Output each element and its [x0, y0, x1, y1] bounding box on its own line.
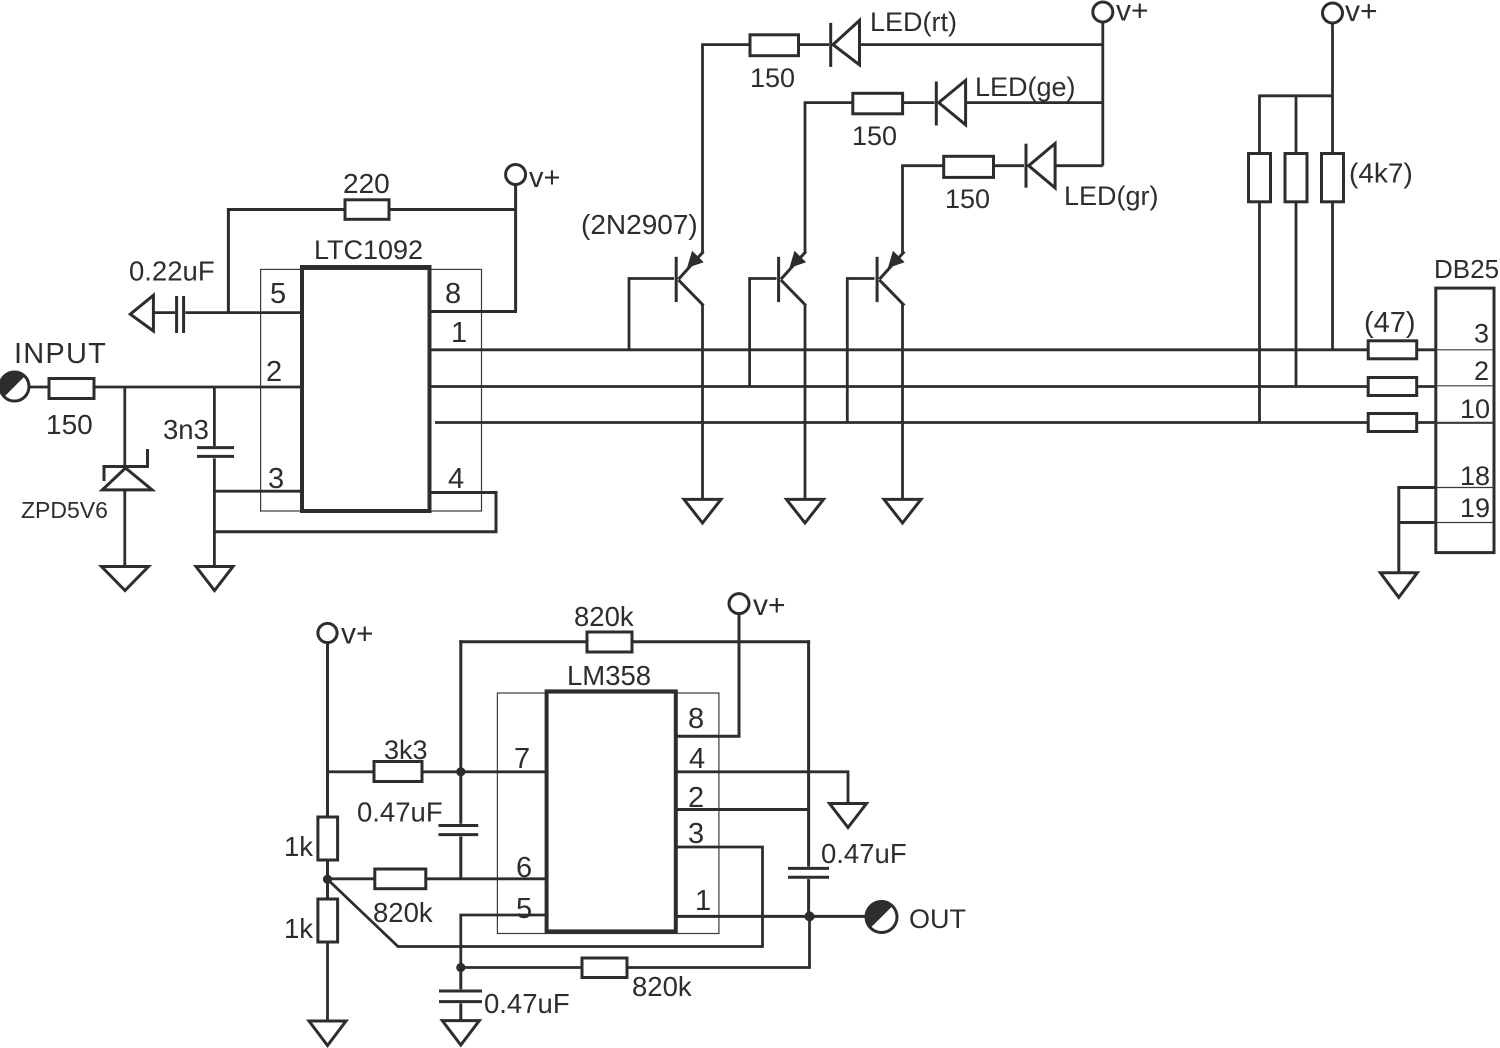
wire Q1 emitter to R150rt [701, 43, 750, 46]
svg-text:3: 3 [1474, 319, 1489, 349]
resistor 150 (gr) [944, 156, 994, 177]
IC U2 LM358 body [547, 691, 676, 931]
svg-text:7: 7 [514, 743, 530, 775]
transistor Q2 2N2907 [750, 103, 807, 500]
bus wire 3 [435, 421, 1368, 424]
wire v+ node to 3k3 [328, 770, 375, 773]
wire R47c to DB25 pin 10 [1417, 421, 1436, 424]
wire 220 left vertical [227, 208, 230, 313]
svg-text:150: 150 [46, 409, 93, 440]
input terminal [0, 372, 29, 401]
svg-text:150: 150 [852, 121, 897, 151]
svg-text:0.22uF: 0.22uF [129, 256, 215, 287]
wire DB25 18-19 jumper [1399, 486, 1436, 573]
ground (DB25) [1380, 573, 1417, 598]
wire U1 pin 8 [430, 310, 518, 313]
bus wire 1 (U1 pin 1) [430, 348, 1369, 351]
svg-text:4: 4 [448, 463, 464, 495]
svg-text:OUT: OUT [909, 904, 966, 934]
wire v+ down to U1 pin 8 [514, 185, 517, 312]
svg-text:1: 1 [695, 885, 711, 917]
svg-text:10: 10 [1460, 394, 1490, 424]
wire to R4k7 b [1295, 95, 1298, 154]
svg-text:0.47uF: 0.47uF [484, 988, 570, 1019]
LED(rt) diode [831, 20, 860, 67]
svg-text:2: 2 [266, 356, 282, 388]
svg-text:DB25: DB25 [1434, 254, 1499, 284]
wire node to 820k mid [328, 877, 375, 880]
v+ terminal (4k7 rail) [1323, 3, 1343, 23]
wire U1 pin 3 [214, 490, 302, 493]
svg-text:8: 8 [445, 278, 461, 310]
wire v+ left vertical [326, 643, 329, 817]
wire 820k mid to U2 pin 6 [426, 877, 547, 880]
svg-text:3n3: 3n3 [163, 414, 209, 445]
wire R4k7 a to bus 3 [1258, 202, 1261, 423]
capacitor 0.47uF (out) [788, 810, 829, 917]
wire 820k bottom to OUT node [627, 916, 810, 967]
capacitor 0.22uF [130, 295, 183, 333]
svg-text:0.47uF: 0.47uF [821, 838, 907, 869]
resistor 820k mid [375, 869, 426, 889]
resistor 4k7 b [1285, 154, 1307, 202]
resistor 150 (rt) [750, 35, 799, 56]
svg-text:220: 220 [343, 168, 390, 199]
svg-text:LM358: LM358 [567, 660, 651, 691]
resistor 150 (ge) [853, 93, 903, 114]
svg-text:150: 150 [945, 184, 990, 214]
ground (divider) [309, 1021, 346, 1046]
wire 220 to v+ [389, 208, 517, 211]
wire Q3 emitter to R150gr [901, 164, 944, 167]
resistor 47 a [1368, 341, 1417, 359]
wire Q2 emitter to R150ge [804, 101, 853, 104]
ground (pin5 cap) [442, 1021, 479, 1045]
svg-text:18: 18 [1460, 461, 1490, 491]
svg-text:v+: v+ [1345, 0, 1378, 28]
resistor 4k7 c [1322, 154, 1344, 202]
svg-text:3: 3 [688, 818, 704, 850]
wire v+ 4k7 vertical [1331, 23, 1334, 154]
svg-text:(47): (47) [1364, 307, 1416, 339]
svg-text:5: 5 [270, 278, 286, 310]
wire R4k7 b to bus 2 [1295, 202, 1298, 387]
LED(ge) diode [936, 80, 965, 125]
wire R150rt to LED(rt) [799, 43, 830, 46]
wire v+ LED rail vertical [1101, 22, 1104, 166]
resistor 4k7 a [1249, 154, 1271, 202]
svg-text:1k: 1k [284, 831, 313, 862]
wire input terminal to R150 [29, 386, 50, 389]
svg-text:LED(ge): LED(ge) [975, 72, 1076, 102]
ground (Q3) [884, 499, 921, 523]
wire U2 pin 5 elbow [461, 915, 547, 968]
capacitor 0.47uF (pin5) [439, 968, 482, 1022]
svg-text:820k: 820k [574, 601, 634, 632]
resistor 47 b [1368, 378, 1417, 396]
svg-text:v+: v+ [753, 589, 786, 622]
svg-text:820k: 820k [373, 897, 433, 928]
svg-text:v+: v+ [529, 162, 560, 194]
svg-text:0.47uF: 0.47uF [357, 797, 443, 828]
svg-text:150: 150 [750, 63, 795, 93]
OUT terminal [866, 902, 897, 933]
wire U2 pin 1 to OUT [676, 915, 865, 918]
wire U2 pin 4 to ground [676, 772, 848, 804]
svg-text:4: 4 [689, 743, 705, 775]
node pin7 junction [456, 767, 465, 776]
v+ terminal (LTC) [506, 165, 526, 185]
ground (3n3) [196, 567, 233, 591]
ground (Q1) [684, 499, 721, 523]
connector DB25 [1436, 288, 1494, 552]
wire LED(ge) to v+ rail [966, 101, 1103, 104]
wire LED(gr) to v+ rail [1055, 164, 1103, 167]
ground (zener) [102, 567, 149, 591]
wire to R4k7 a [1258, 95, 1261, 154]
svg-text:5: 5 [516, 893, 532, 925]
svg-text:ZPD5V6: ZPD5V6 [21, 497, 108, 523]
node OUT junction [805, 911, 815, 921]
wire 1k lower to ground [326, 942, 329, 1021]
wire 820k-top left horizontal [459, 640, 587, 643]
wire v+ right vertical [738, 614, 741, 737]
zener diode ZPD5V6 [102, 387, 152, 567]
wire pin5 node to 820k bottom [461, 966, 582, 969]
resistor 1k lower [318, 899, 338, 942]
svg-text:820k: 820k [632, 971, 692, 1002]
resistor 820k top [587, 632, 632, 652]
svg-text:1k: 1k [284, 913, 313, 944]
transistor Q3 2N2907 [847, 166, 904, 500]
resistor 820k bottom [582, 958, 627, 978]
svg-text:2: 2 [1474, 356, 1489, 386]
svg-text:INPUT: INPUT [14, 338, 107, 370]
v+ terminal (LED rail) [1093, 2, 1113, 22]
IC U1 LTC1092 body [302, 267, 430, 511]
node pin5 junction [456, 963, 465, 972]
wire right vertical 820k-top to pin 2 [807, 640, 810, 809]
svg-text:v+: v+ [1116, 0, 1149, 28]
svg-text:LTC1092: LTC1092 [314, 235, 423, 265]
wire U2 pin 8 [676, 735, 741, 738]
svg-text:8: 8 [688, 703, 704, 735]
resistor 220 [345, 200, 389, 220]
wire 820k-top to right vertical [632, 640, 810, 643]
wire 3k3 to pin7 node [422, 770, 461, 773]
capacitor C 3n3 [197, 387, 234, 567]
wire divider node diagonal to pin 3 loop [328, 847, 763, 947]
svg-text:LED(rt): LED(rt) [870, 7, 957, 37]
ground (Q2) [787, 499, 824, 523]
ground (pin 4) [830, 804, 867, 828]
bus wire 2 [430, 385, 1369, 388]
wire R150ge to LED(ge) [903, 101, 935, 104]
resistor 150 (input) [49, 379, 94, 399]
resistor 1k upper [318, 817, 338, 860]
wire input node to U1 pin 2 [94, 386, 302, 389]
LED(gr) diode [1026, 144, 1055, 188]
wire LED(rt) to v+ rail [860, 43, 1103, 46]
wire 0.22uF to U1 pin 5 [185, 311, 302, 314]
svg-text:19: 19 [1460, 493, 1490, 523]
capacitor 0.47uF (pin7) [439, 772, 479, 879]
svg-text:v+: v+ [341, 618, 374, 651]
transistor Q1 2N2907 [629, 45, 704, 500]
wire R4k7 c to bus 1 [1331, 202, 1334, 350]
svg-text:3k3: 3k3 [384, 735, 428, 765]
wire U2 pin 7 [461, 770, 547, 773]
svg-text:LED(gr): LED(gr) [1064, 181, 1159, 211]
node divider junction [323, 875, 332, 884]
resistor 47 c [1368, 414, 1417, 432]
wire R47a to DB25 pin 3 [1417, 348, 1436, 351]
wire 1k upper to node [326, 860, 329, 899]
wire R47b to DB25 pin 2 [1417, 385, 1436, 388]
wire U2 pin 2 [676, 808, 809, 811]
wire R150gr to LED(gr) [994, 164, 1025, 167]
svg-text:1: 1 [451, 317, 467, 349]
svg-text:(2N2907): (2N2907) [581, 209, 698, 240]
IC U1 LTC1092 outer pin frame [261, 269, 482, 511]
wire 4k7 top bus [1260, 94, 1333, 97]
v+ terminal (LM358 left) [318, 623, 337, 642]
wire 820k-top left vertical [459, 640, 462, 772]
DB25 row separators [1436, 350, 1494, 523]
v+ terminal (LM358 right) [729, 594, 749, 614]
resistor 3k3 [374, 762, 422, 782]
wire U1 pin 4 return to ground node [214, 493, 496, 532]
wire 220 left horizontal [227, 208, 345, 211]
svg-text:(4k7): (4k7) [1349, 158, 1413, 189]
IC U2 LM358 outer pin frame [497, 693, 719, 934]
